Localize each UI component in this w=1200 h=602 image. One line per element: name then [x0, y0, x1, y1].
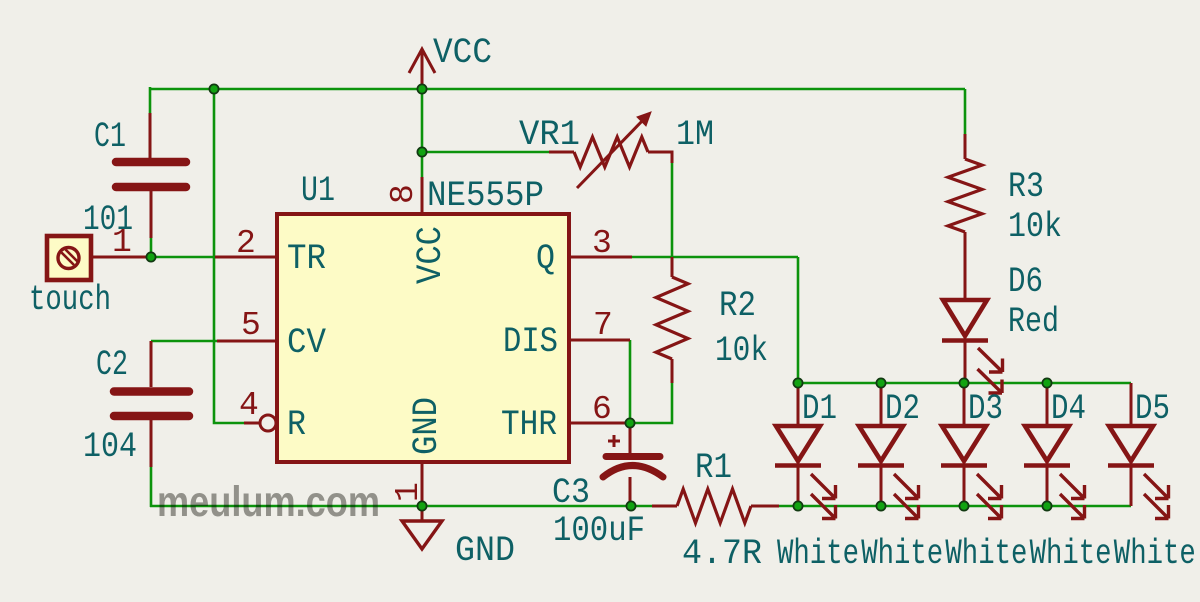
svg-text:VCC: VCC	[433, 33, 492, 73]
LED D3	[941, 383, 1002, 519]
svg-text:White: White	[861, 534, 943, 574]
LED D4	[1024, 383, 1085, 519]
wire top rail right corner down to R3	[964, 89, 967, 134]
svg-text:7: 7	[593, 307, 613, 344]
svg-text:4.7R: 4.7R	[682, 534, 762, 574]
svg-text:2: 2	[236, 225, 256, 262]
svg-text:10k: 10k	[1008, 207, 1062, 247]
svg-text:6: 6	[592, 391, 612, 428]
wire R1 to D1 node	[779, 505, 798, 508]
svg-text:touch: touch	[29, 280, 111, 320]
LED D6 red	[942, 232, 1003, 393]
svg-text:5: 5	[241, 307, 261, 344]
svg-text:1: 1	[112, 224, 132, 261]
op-amp U1 NE555P body	[277, 214, 569, 462]
wire touch node to TR	[151, 256, 215, 259]
wire R2 bottom to THR node	[630, 383, 672, 423]
svg-text:THR: THR	[501, 405, 557, 445]
resistor VR1 potentiometer	[549, 112, 672, 188]
svg-text:D2: D2	[885, 389, 920, 429]
svg-text:D5: D5	[1135, 389, 1170, 429]
svg-text:R1: R1	[695, 448, 732, 488]
svg-text:D1: D1	[802, 389, 837, 429]
svg-text:Q: Q	[536, 239, 555, 279]
LED D2	[858, 383, 919, 519]
wire vertical rail x214 to reset	[214, 89, 244, 423]
svg-text:U1: U1	[301, 171, 335, 211]
svg-text:DIS: DIS	[503, 322, 558, 362]
IC pins	[215, 177, 632, 506]
wire DIS down	[629, 340, 632, 423]
resistor R3	[948, 134, 982, 297]
svg-text:CV: CV	[287, 323, 326, 363]
svg-text:C3: C3	[552, 473, 590, 513]
ground symbol	[402, 506, 442, 549]
svg-text:Red: Red	[1008, 302, 1059, 342]
svg-text:VCC: VCC	[411, 226, 451, 284]
svg-text:104: 104	[83, 427, 137, 467]
svg-text:VR1: VR1	[519, 115, 580, 155]
resistor R1	[652, 489, 779, 523]
svg-text:R: R	[287, 405, 306, 445]
svg-text:R2: R2	[719, 286, 756, 326]
wire VR1 left	[422, 151, 549, 154]
svg-text:R3: R3	[1008, 167, 1044, 207]
svg-text:10k: 10k	[715, 331, 768, 371]
svg-text:White: White	[945, 534, 1027, 574]
svg-text:NE555P: NE555P	[427, 176, 544, 216]
svg-text:meulum.com: meulum.com	[157, 478, 380, 526]
wire VCC stem down to pin8	[421, 89, 424, 177]
touch pad P1	[47, 236, 152, 280]
VCC power symbol	[409, 49, 435, 89]
svg-text:GND: GND	[455, 531, 515, 571]
svg-text:1: 1	[390, 482, 427, 502]
resistor R2	[656, 257, 688, 383]
wire C1 bottom to touch node	[150, 238, 153, 258]
svg-text:D3: D3	[968, 389, 1003, 429]
capacitor C3 polarized	[603, 423, 663, 506]
svg-text:1M: 1M	[676, 115, 714, 155]
svg-text:3: 3	[592, 225, 612, 262]
svg-text:White: White	[1114, 534, 1196, 574]
LED D1	[775, 383, 836, 519]
svg-text:White: White	[777, 534, 859, 574]
svg-text:TR: TR	[287, 239, 326, 279]
svg-text:8: 8	[385, 184, 422, 204]
svg-text:White: White	[1030, 534, 1112, 574]
wire Q node down to LED rail	[797, 257, 800, 383]
wire VR1 right down to Q node	[671, 162, 674, 257]
svg-text:D6: D6	[1008, 262, 1043, 302]
wire C2 bottom drop	[150, 467, 153, 507]
wire Q output horizontal	[632, 256, 798, 259]
wire C3 node to R1	[631, 505, 652, 508]
svg-text:C1: C1	[94, 117, 126, 157]
capacitor C1	[116, 113, 186, 238]
svg-text:4: 4	[239, 387, 259, 424]
svg-text:GND: GND	[407, 397, 447, 455]
wire C1 top drop	[149, 87, 152, 113]
wire LED cathode rail	[798, 505, 1131, 508]
wire LED anode rail	[798, 382, 1131, 385]
capacitor C2	[114, 341, 189, 467]
svg-text:D4: D4	[1051, 389, 1086, 429]
wire ground rail left	[150, 505, 631, 508]
wire top VCC rail	[150, 88, 965, 91]
wire D5 corner drop	[1130, 383, 1133, 395]
wire CV to C2 top	[151, 340, 217, 343]
LED D5	[1108, 383, 1169, 519]
svg-text:C2: C2	[96, 345, 128, 385]
svg-text:100uF: 100uF	[553, 511, 645, 551]
